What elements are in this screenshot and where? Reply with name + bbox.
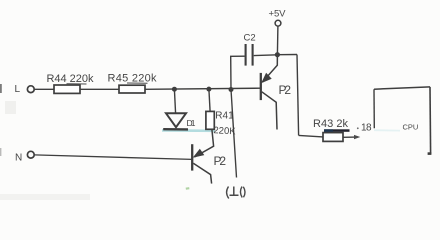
green scan tick xyxy=(186,187,190,190)
svg-text:P2: P2 xyxy=(214,154,227,168)
svg-text:D1: D1 xyxy=(187,118,196,128)
wire +5V down to junction xyxy=(276,26,279,55)
svg-text:L: L xyxy=(15,84,21,95)
svg-text:R41: R41 xyxy=(215,111,234,122)
capacitor C2 right wire xyxy=(254,54,278,57)
node dot to C2/ground wire xyxy=(229,87,234,92)
svg-text:R43 2k: R43 2k xyxy=(313,118,349,130)
svg-text:N: N xyxy=(15,153,22,164)
svg-text:18: 18 xyxy=(361,123,372,134)
transistor Q2 emitter lead from R41 xyxy=(195,129,214,157)
wire node to D1 anode xyxy=(174,89,175,113)
resistor R45 xyxy=(119,85,145,93)
capacitor C2 plates xyxy=(245,44,247,66)
underline under 220k of R45 xyxy=(127,82,148,84)
cyan scan artifact line under D1/R41 xyxy=(162,129,215,132)
transistor Q1 emitter lead from junction xyxy=(263,55,278,82)
capacitor C2 left wire xyxy=(231,56,245,89)
transistor Q1 (P2, top) base bar xyxy=(260,73,262,100)
+5V terminal circle xyxy=(275,20,281,26)
wire R43 to pin 18 with arrow xyxy=(343,136,357,138)
terminal L circle xyxy=(27,86,34,93)
node dot to R41 xyxy=(206,87,211,92)
diode D1 cathode bar xyxy=(163,128,188,131)
terminal N circle xyxy=(27,151,34,158)
left edge mark near N xyxy=(0,148,1,156)
wire riser to R43 xyxy=(299,135,323,137)
bottom symbol (10) digit 1 as T xyxy=(230,187,239,196)
diode D1 triangle xyxy=(166,113,186,127)
wire N to Q2 base xyxy=(34,155,192,160)
right riser wire down xyxy=(297,55,299,136)
transistor Q1 emitter arrow xyxy=(262,73,271,82)
wire L to R44 xyxy=(34,88,54,90)
bottom symbol (10) open paren xyxy=(227,187,229,199)
dot before 18 xyxy=(357,127,359,129)
svg-text:+5V: +5V xyxy=(269,9,287,20)
node dot to D1 xyxy=(172,87,177,92)
long wire from node down to bottom symbol xyxy=(231,90,237,178)
transistor Q1 collector xyxy=(262,92,277,130)
resistor R41 xyxy=(206,111,214,129)
main wire R45 to Q1 base xyxy=(145,88,261,89)
junction dot at +5V rail xyxy=(275,52,280,57)
underline under 220k of R44 xyxy=(67,83,87,85)
resistor R44 xyxy=(54,85,80,93)
wire R44 to R45 xyxy=(80,88,119,90)
CPU box right edge foot xyxy=(428,152,432,155)
CPU box right edge xyxy=(429,87,432,154)
svg-text:P2: P2 xyxy=(279,83,292,97)
left edge mark near L xyxy=(0,84,2,93)
CPU box top edge xyxy=(374,87,430,89)
arrowhead to pin 18 xyxy=(354,135,360,139)
bottom symbol (10) digit 0 as open curves xyxy=(240,187,245,198)
faint corner smudge bottom-left xyxy=(5,101,16,114)
transistor Q2 collector xyxy=(193,163,211,183)
resistor R43 xyxy=(323,133,343,142)
wire junction to right riser xyxy=(277,54,297,56)
wire node to R41 top xyxy=(209,89,210,111)
transistor Q2 emitter arrow xyxy=(194,149,204,157)
svg-text:C2: C2 xyxy=(244,33,256,44)
heavy dark bar above R43 xyxy=(324,129,350,132)
CPU box left edge xyxy=(373,89,375,128)
cyan scan artifact near CPU box xyxy=(374,129,400,131)
transistor Q2 (P2, bottom) base bar xyxy=(191,144,193,170)
svg-text:CPU: CPU xyxy=(403,123,419,132)
